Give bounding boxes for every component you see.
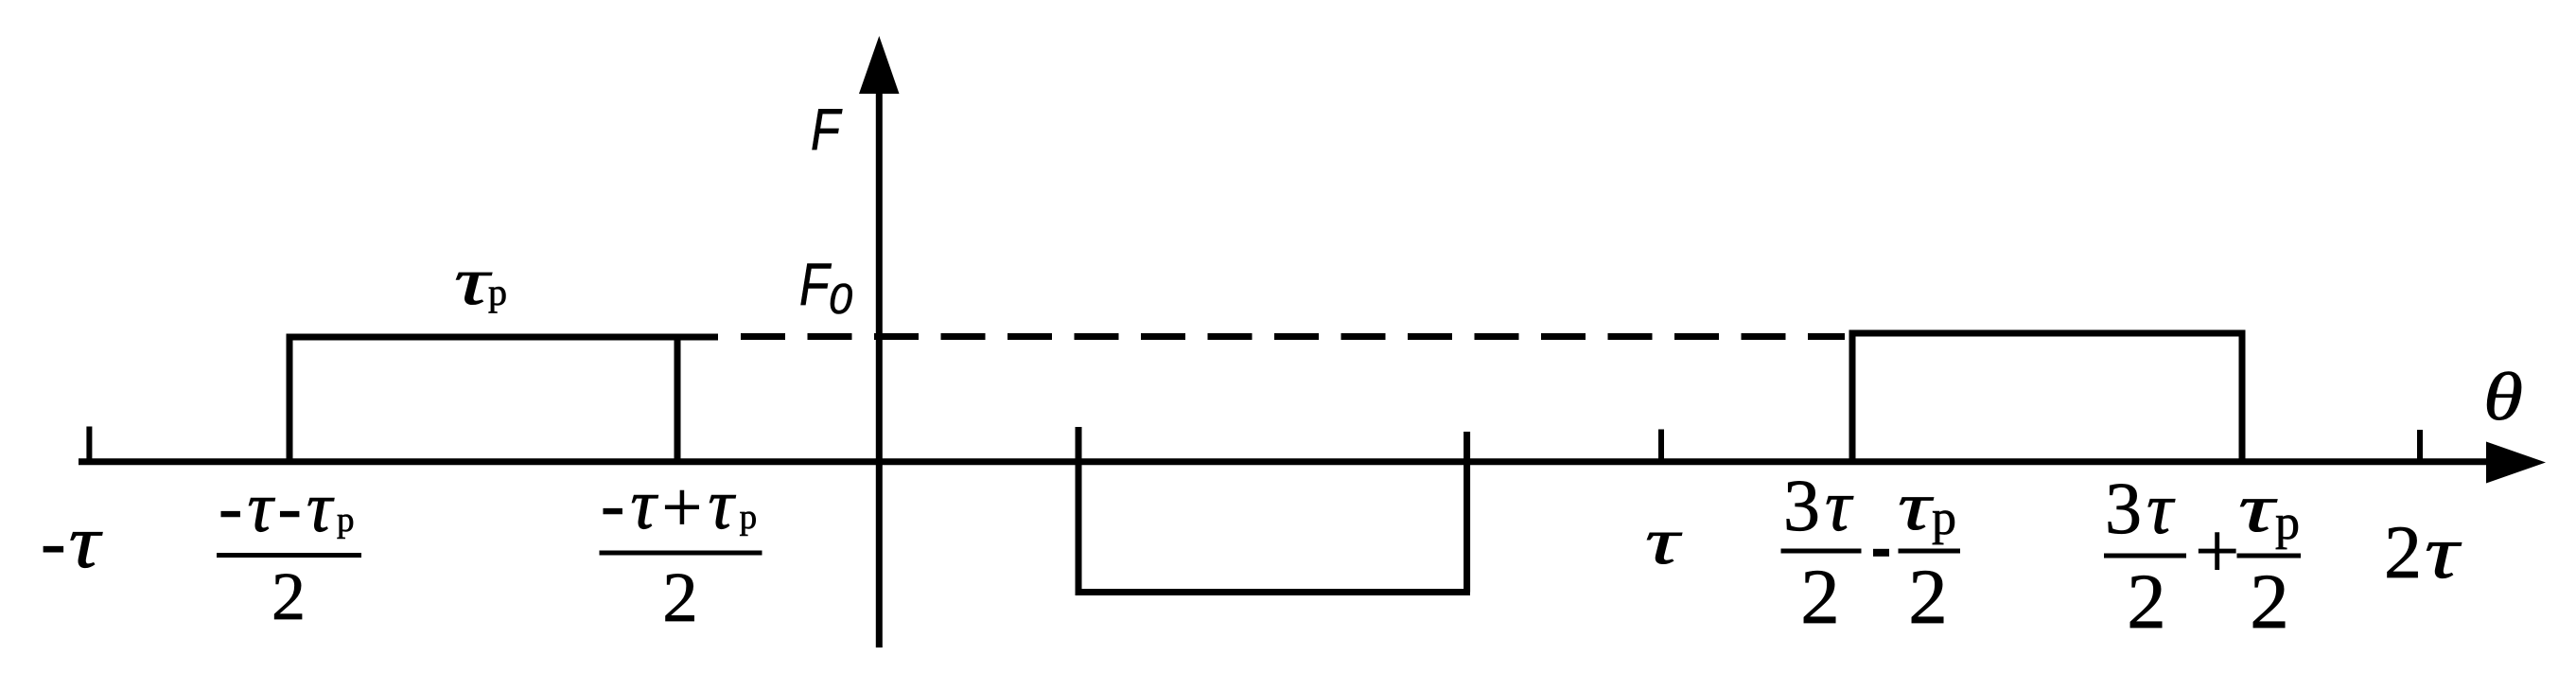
fraction (-tau+taup)/2 bar (600, 551, 762, 556)
tick at 2tau (2417, 430, 2423, 465)
label 3tau/2 bar (second) (2104, 554, 2186, 559)
svg-text:θ: θ (2483, 359, 2523, 435)
svg-text:F: F (811, 98, 843, 163)
theta axis line (79, 458, 2497, 465)
negative pulse left edge (1076, 427, 1082, 593)
svg-text:2: 2 (272, 559, 306, 634)
svg-text:+: + (2195, 507, 2239, 595)
negative pulse bottom (1076, 589, 1471, 595)
svg-text:p: p (2275, 496, 2300, 550)
svg-text:2: 2 (1908, 553, 1948, 640)
svg-text:p: p (1932, 491, 1956, 545)
svg-text:0: 0 (829, 275, 852, 323)
fraction taup/2 bar (second) (2237, 554, 2302, 559)
F axis line (876, 85, 883, 647)
svg-text:p: p (488, 271, 507, 313)
svg-text:τ: τ (1898, 468, 1935, 544)
svg-text:τ: τ (2238, 470, 2278, 546)
svg-text:3τ: 3τ (2105, 467, 2178, 549)
svg-text:2: 2 (662, 559, 698, 637)
tick at -tau (86, 427, 92, 466)
label 3tau/2 bar (1781, 549, 1862, 554)
svg-text:τ: τ (1645, 505, 1683, 578)
dashed F0 level line (741, 333, 1845, 340)
left positive pulse left edge and top (287, 337, 719, 465)
svg-text:-τ+τp: -τ+τp (601, 465, 762, 547)
minus between fractions (1873, 549, 1889, 557)
svg-text:τ: τ (454, 243, 492, 319)
F axis arrowhead (859, 36, 900, 94)
left positive pulse right edge (675, 337, 681, 465)
svg-text:2: 2 (1800, 553, 1840, 640)
svg-text:-τ: -τ (41, 501, 104, 584)
svg-text:2: 2 (2127, 558, 2166, 645)
svg-text:F: F (799, 252, 832, 318)
fraction (-tau-taup)/2 bar (217, 553, 361, 558)
fraction taup/2 bar (first) (1899, 549, 1961, 554)
tick at tau (1658, 430, 1664, 466)
negative pulse right edge (1463, 432, 1470, 593)
right positive pulse (1849, 333, 2246, 465)
svg-text:2: 2 (2250, 558, 2289, 645)
theta axis arrowhead (2486, 442, 2546, 484)
svg-text:3τ: 3τ (1783, 464, 1856, 546)
